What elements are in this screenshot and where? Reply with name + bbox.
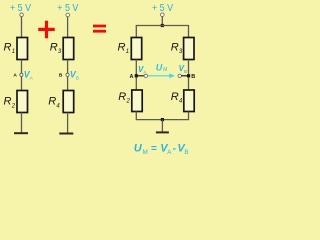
junction node B [187,74,190,77]
junction node A [135,74,138,77]
svg-text:R: R [118,91,126,103]
label R1 [4,42,16,56]
resistor R4 [63,91,73,113]
svg-text:B: B [184,149,188,156]
svg-text:A: A [143,70,146,75]
resistor R1 [17,38,28,60]
svg-text:R: R [4,96,12,108]
svg-text:A: A [130,74,134,80]
svg-text:M: M [143,149,148,156]
svg-text:B: B [191,74,195,80]
resistor R1 (bridge) [131,38,141,60]
bottom rail wire [136,112,188,120]
svg-text:R: R [171,42,179,54]
label R4 (bridge) [171,91,183,105]
label UM (bridge) [156,62,168,73]
svg-text:1: 1 [12,49,15,55]
svg-text:2: 2 [126,99,131,105]
svg-text:R: R [50,42,58,54]
label VB (bridge) [179,64,187,74]
label R2 [4,96,16,110]
label R3 (bridge) [171,42,183,56]
label VB (divider 2) [70,70,79,82]
svg-text:+ 5 V: + 5 V [152,2,173,14]
svg-text:1: 1 [126,49,129,55]
resistor R3 [63,38,73,60]
label R1 (bridge) [118,42,130,56]
svg-text:B: B [59,72,63,78]
svg-text:+ 5 V: + 5 V [57,2,78,14]
node B terminal (divider 2) [66,73,69,76]
equals sign [93,26,106,31]
supply terminal (bridge) [161,13,165,17]
node A terminal (bridge) [144,74,147,77]
svg-text:B: B [76,76,79,82]
wire R1 to R2 (bridge left) [135,60,137,91]
label R4 [48,96,60,110]
supply terminal (divider 1) [20,13,24,17]
plus sign [38,21,55,39]
svg-text:R: R [48,96,56,108]
svg-text:-: - [173,143,176,154]
wire node A to terminal [138,75,145,77]
svg-text:R: R [4,42,12,54]
ground (divider 1) [14,132,28,134]
svg-text:2: 2 [11,103,16,109]
wire R1 to R2 [21,60,23,91]
wire terminal to top rail [161,16,163,25]
svg-text:U: U [134,142,143,154]
resistor R2 (bridge) [132,90,142,112]
svg-text:=: = [151,143,157,154]
junction top rail [161,24,164,27]
wire R2 to ground [21,113,23,134]
svg-text:A: A [13,72,17,78]
svg-text:M: M [163,67,167,73]
resistor R3 (bridge) [184,38,194,60]
svg-text:U: U [156,62,163,72]
svg-text:B: B [184,69,187,74]
top rail wire [136,26,188,38]
wire terminal to R3 [67,17,69,38]
resistor R4 (bridge) [184,90,194,112]
wire junction to ground [161,120,163,132]
label VA (divider 1) [24,70,34,82]
label R2 (bridge) [118,91,130,105]
wire R4 to ground [67,113,69,134]
label VA (bridge) [138,65,146,75]
wire R3 to R4 (bridge right) [188,60,190,91]
wire node B terminal to junction [181,75,187,77]
junction bottom rail [161,118,164,121]
node B terminal (bridge) [178,74,181,77]
node A terminal (divider 1) [20,73,23,76]
supply terminal (divider 2) [66,13,70,17]
arrow UM [148,73,175,78]
svg-text:R: R [171,91,179,103]
wire R3 to R4 [67,60,69,91]
formula UM = VA - VB [134,142,189,156]
ground (divider 2) [59,133,73,135]
ground (bridge) [156,131,169,133]
label R3 [50,42,62,56]
svg-text:+ 5 V: + 5 V [10,2,31,14]
wire terminal to R1 [21,16,23,37]
svg-text:R: R [118,42,126,54]
resistor R2 [17,91,28,113]
